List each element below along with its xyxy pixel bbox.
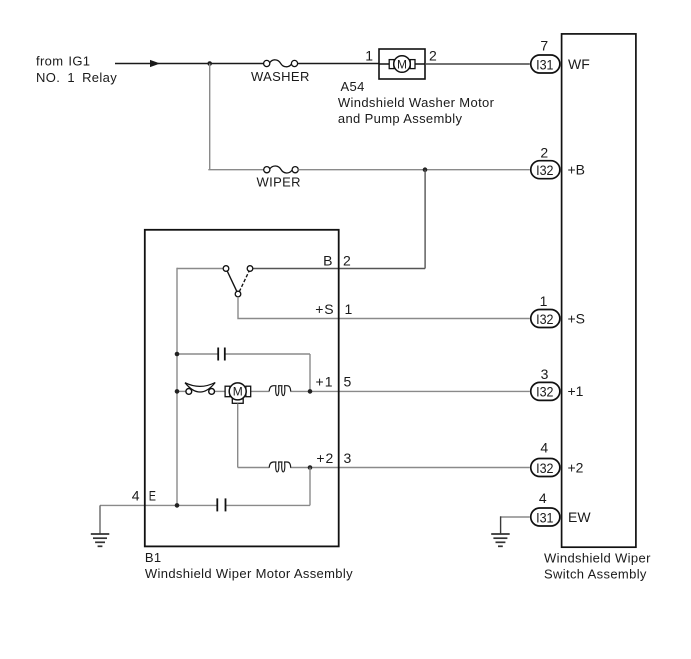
node dot bus/cap (175, 352, 180, 357)
node junction at IG1 split (207, 61, 212, 66)
svg-text:NO. 1 Relay: NO. 1 Relay (36, 70, 117, 85)
wire +1 row (177, 390, 530, 392)
svg-text:4: 4 (539, 490, 547, 506)
circuit breaker (185, 383, 215, 395)
svg-text:2: 2 (540, 145, 548, 161)
ground G2 (491, 534, 510, 546)
svg-text:4: 4 (132, 488, 140, 504)
svg-text:3: 3 (541, 366, 549, 382)
wire EW to ground (500, 516, 530, 518)
switch park contacts (177, 266, 253, 297)
svg-text:1: 1 (540, 293, 548, 309)
pin label 4 E (132, 488, 156, 504)
svg-text:Switch Assembly: Switch Assembly (544, 567, 647, 582)
svg-text:Windshield Wiper: Windshield Wiper (544, 550, 651, 565)
ground G1 (91, 534, 110, 546)
node dot bus/E (175, 503, 180, 508)
svg-text:+S: +S (315, 301, 334, 317)
svg-text:3: 3 (344, 450, 352, 466)
wire capacitor branch top (177, 354, 310, 391)
connector I32 pin4 +2 (531, 440, 584, 477)
svg-text:I32: I32 (536, 460, 554, 476)
svg-text:E: E (149, 488, 156, 504)
svg-text:M: M (397, 57, 407, 71)
pin label B 2 (323, 253, 351, 269)
svg-text:+S: +S (568, 310, 586, 326)
capacitor C-top (218, 348, 225, 361)
svg-text:B1: B1 (145, 550, 162, 565)
label switch assembly (544, 550, 651, 581)
wire +B junction down to B pin (424, 170, 426, 269)
pin label +1 5 (316, 374, 352, 390)
wire B pin row (253, 268, 425, 270)
svg-text:+B: +B (568, 162, 586, 178)
node dot +1/cap (308, 389, 313, 394)
arrow on IG1 feed (150, 60, 160, 67)
wire wiper fuse to +B connector (298, 169, 530, 171)
svg-text:1: 1 (365, 48, 373, 64)
wire IG1 feed (115, 63, 151, 65)
svg-text:5: 5 (344, 374, 352, 390)
wire +2 row (238, 467, 530, 469)
node dot bus/+1 (175, 389, 180, 394)
connector I32 pin2 +B (531, 145, 585, 179)
svg-text:B: B (323, 253, 332, 269)
wire left bus (176, 268, 178, 505)
box B1 wiper motor assembly (145, 230, 339, 547)
svg-text:I32: I32 (536, 311, 554, 327)
svg-text:I31: I31 (536, 56, 554, 72)
node dot +2 (308, 465, 313, 470)
svg-text:1: 1 (345, 301, 353, 317)
svg-text:2: 2 (343, 253, 351, 269)
label A54 (338, 79, 495, 126)
connector I32 pin3 +1 (531, 366, 584, 400)
svg-text:from IG1: from IG1 (36, 54, 90, 69)
connector I32 pin1 +S (531, 293, 585, 328)
svg-text:I31: I31 (536, 509, 554, 525)
node from-IG1 label (36, 54, 117, 85)
fuse WASHER (251, 60, 310, 84)
wire washer motor pin2 to I31 (425, 63, 530, 65)
wire junction down to wiper fuse row (209, 64, 211, 170)
svg-text:WF: WF (568, 56, 590, 72)
svg-text:I32: I32 (536, 162, 554, 178)
wire wiper row left (208, 169, 264, 171)
wire washer fuse to washer motor (298, 63, 379, 65)
washer motor A54 (365, 48, 437, 80)
svg-text:WASHER: WASHER (251, 69, 310, 84)
svg-text:+1: +1 (568, 383, 584, 399)
wire +2 down to E row (309, 468, 311, 506)
svg-text:I32: I32 (536, 384, 554, 400)
svg-text:A54: A54 (341, 79, 365, 94)
svg-text:M: M (233, 385, 243, 399)
svg-text:+2: +2 (316, 450, 334, 466)
svg-text:Windshield Wiper Motor Assembl: Windshield Wiper Motor Assembly (145, 566, 353, 581)
pin label +2 3 (316, 450, 351, 466)
svg-text:+1: +1 (316, 374, 334, 390)
motor M wiper (225, 383, 251, 403)
wire motor stem (237, 404, 239, 468)
connector I31 pin4 EW (531, 490, 592, 526)
svg-text:7: 7 (540, 38, 548, 54)
svg-text:Windshield Washer Motor: Windshield Washer Motor (338, 95, 495, 110)
inductor L2 (269, 462, 291, 472)
inductor L1 (269, 386, 291, 396)
node junction wiper/+B (423, 167, 428, 172)
svg-text:and Pump Assembly: and Pump Assembly (338, 111, 463, 126)
svg-text:EW: EW (568, 509, 591, 525)
capacitor C-bottom (217, 498, 225, 511)
pin label +S 1 (315, 301, 352, 317)
label B1 (145, 550, 353, 581)
svg-text:4: 4 (540, 440, 548, 456)
box windshield wiper switch assembly (562, 34, 636, 547)
wire EW ground drop (500, 516, 502, 534)
svg-text:2: 2 (429, 48, 437, 64)
svg-text:WIPER: WIPER (257, 175, 301, 190)
connector I31 pin7 WF (531, 38, 590, 74)
svg-text:+2: +2 (568, 459, 584, 475)
wire switch common to +S row (238, 297, 530, 319)
wire E row (100, 505, 310, 534)
wire IG1 feed to washer fuse (158, 63, 264, 65)
fuse WIPER (257, 166, 301, 189)
